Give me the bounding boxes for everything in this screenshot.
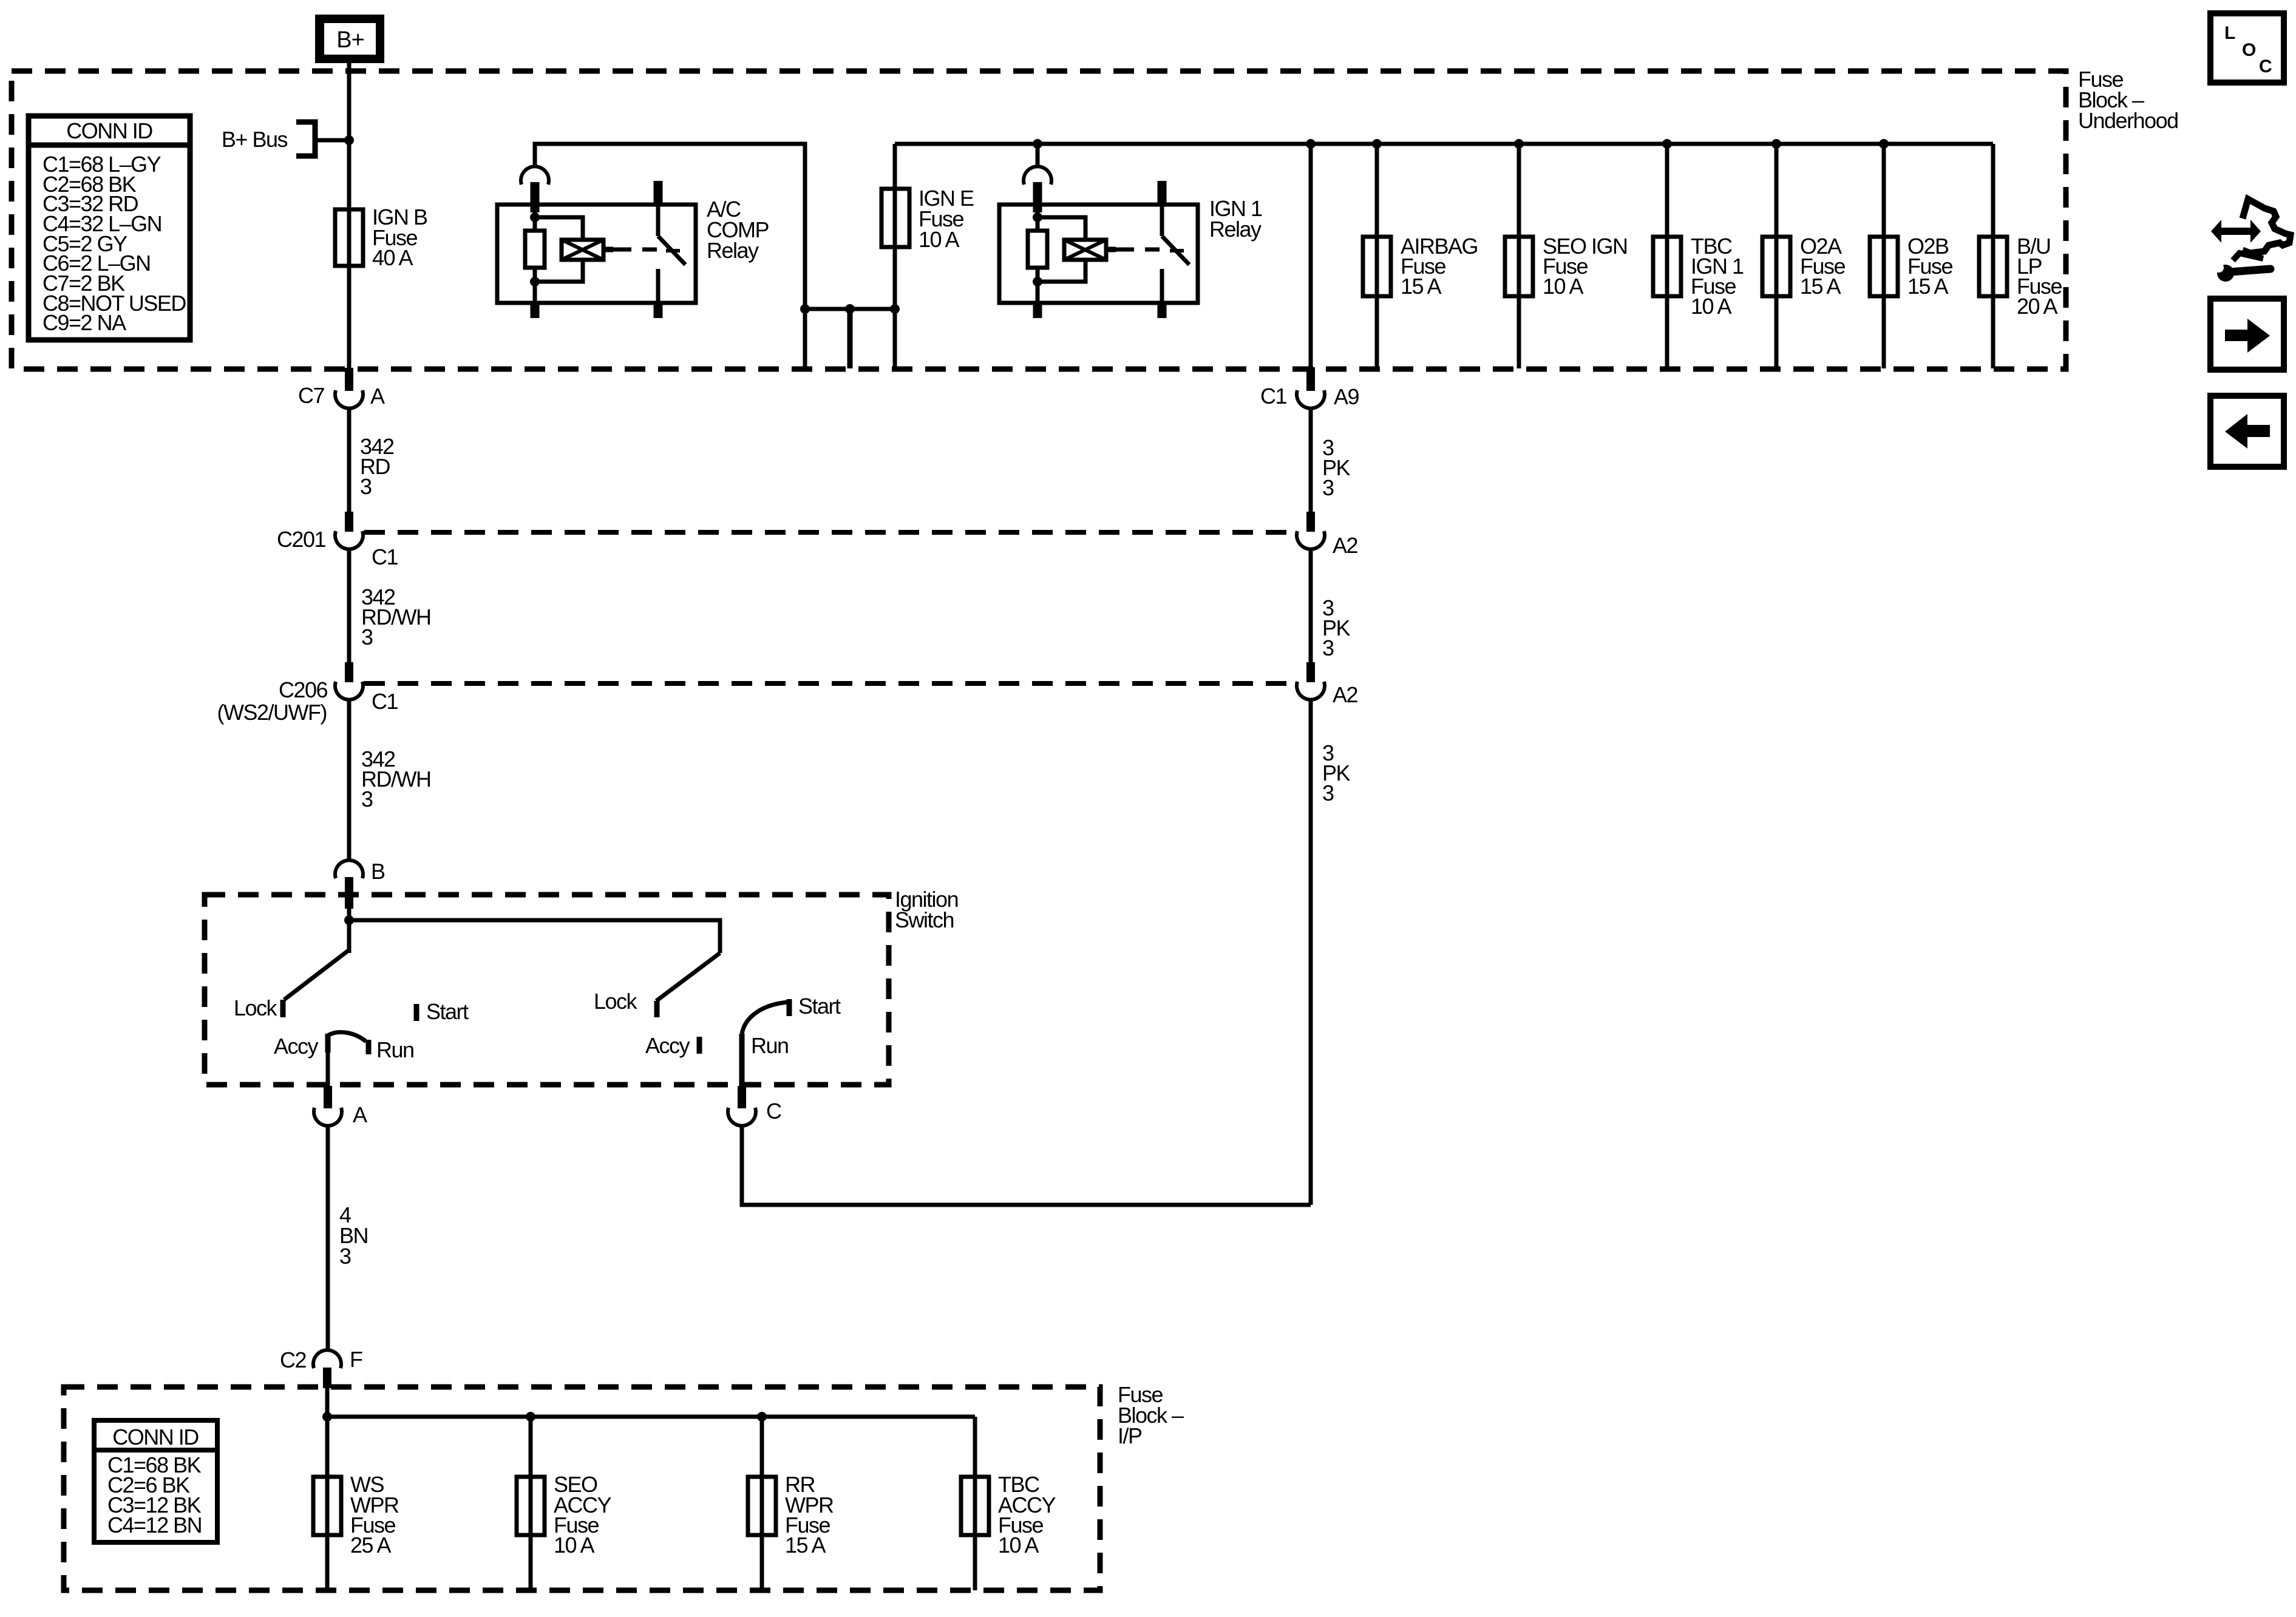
wire top bus segment 1 (A/C relay feed) [535,144,805,309]
svg-text:10 A: 10 A [1691,294,1732,319]
fuse O2B 15 A [1870,139,1953,368]
svg-text:Run: Run [751,1033,789,1058]
svg-text:Start: Start [798,994,841,1019]
svg-text:Accy: Accy [645,1033,690,1058]
connector C206 pin C1 [217,662,398,725]
svg-text:C206: C206 [279,677,328,702]
svg-text:15 A: 15 A [1800,274,1841,299]
switch blade ignition wafer 2 [656,953,720,1001]
svg-text:C: C [2259,56,2272,76]
svg-text:Lock: Lock [234,995,278,1020]
svg-text:A: A [370,384,385,408]
node IGN 1 relay coil bottom junction [1033,277,1042,286]
svg-text:CONN ID: CONN ID [66,118,152,143]
svg-text:O: O [2242,40,2256,60]
relay IGN 1 box outline [999,205,1198,303]
contact Start (wafer 2) [789,994,841,1019]
actuator dashed link IGN 1 relay [1116,249,1184,251]
wire IGN 1 relay feed tap [1036,144,1040,168]
connector C7 pin A [298,368,385,408]
contact Start (wafer 1) [416,999,469,1024]
connector ignition switch pin B [335,859,385,909]
svg-text:C7: C7 [298,383,324,408]
resistor A/C relay coil suppression [525,212,545,303]
svg-text:Underhood: Underhood [2078,108,2178,133]
wire dashed C206 interconnect [364,681,1297,686]
svg-text:15 A: 15 A [785,1533,826,1558]
connector ignition switch pin C [728,1086,781,1126]
svg-text:B+: B+ [336,27,364,53]
wire Run output to pin C [739,1034,745,1086]
label A/C COMP Relay [707,197,769,263]
svg-text:C2: C2 [280,1347,306,1372]
fuse O2A 15 A [1762,139,1846,368]
wire 342 RD/WH 3 (upper) [349,549,430,662]
svg-text:F: F [350,1347,362,1372]
svg-text:3: 3 [1322,781,1334,805]
svg-text:A: A [353,1102,367,1127]
svg-text:10 A: 10 A [554,1533,595,1558]
svg-text:Relay: Relay [707,238,759,263]
contact bridge Run-Start (wafer 2) [742,1002,789,1058]
wire top bus segment 2 (IGN E / fuse row bus) [895,142,1993,146]
icon LOC reference box [2210,13,2284,83]
wire I/P feed bus [322,1412,975,1422]
connector C2 pin F [280,1347,362,1417]
svg-text:C1: C1 [1260,384,1286,408]
node IGN 1 relay coil top junction [1033,212,1042,222]
label Fuse Block - Underhood [2078,67,2178,133]
svg-text:Switch: Switch [895,907,954,932]
connector C201 pin A2 [1297,512,1358,558]
coil winding A/C relay [562,240,613,260]
resistor IGN 1 relay coil suppression [1028,212,1047,303]
contact Accy (wafer 2) [645,1033,699,1058]
pin stubs IGN 1 relay bottom [1038,303,1162,318]
CONN ID table (underhood) [29,116,190,340]
contact Accy (wafer 1) [274,1034,328,1059]
svg-text:C9=2 NA: C9=2 NA [42,310,126,335]
Ignition Switch dashed enclosure [205,895,889,1085]
fuse TBC IGN 1 10 A [1653,139,1744,368]
icon forward arrow box [2210,299,2284,370]
svg-text:3: 3 [360,474,372,499]
connector C201 pin C1 [277,512,398,569]
fuse IGN E 10 A [881,144,974,309]
icon wiring repair (arrows and wrench) [2211,199,2291,282]
coil winding IGN 1 relay [1064,240,1116,260]
fuse RR WPR 15 A [748,1417,834,1590]
svg-text:I/P: I/P [1118,1423,1142,1448]
svg-text:Run: Run [376,1037,414,1062]
svg-text:3: 3 [339,1244,351,1269]
actuator dashed link A/C relay [613,249,680,251]
fuse IGN B 40 A [335,205,427,270]
fuse B/U LP 20 A [1979,144,2062,368]
svg-text:3: 3 [361,787,373,812]
connector arc A/C relay coil feed pin [521,166,549,212]
switch contact IGN 1 relay [1162,181,1189,303]
wire ignition feed internal [344,909,720,953]
svg-text:(WS2/UWF): (WS2/UWF) [217,700,327,725]
contact bridge Accy-Run (wafer 1) [328,1032,414,1062]
fuse WS WPR 25 A [313,1417,399,1590]
svg-text:Accy: Accy [274,1034,319,1059]
connector C206 pin A2 [1297,662,1358,707]
label Ignition Switch [895,887,958,932]
svg-text:10 A: 10 A [998,1533,1039,1558]
wire IGN 1 relay coil parallel branch [1038,217,1085,282]
icon back arrow box [2210,396,2284,467]
svg-text:25 A: 25 A [350,1533,392,1558]
contact Lock (wafer 1) [234,995,283,1020]
wire A/C relay coil parallel branch [535,217,583,282]
label IGN 1 Relay [1209,196,1262,242]
wire 3 PK 3 (A) [1311,407,1351,512]
svg-text:A2: A2 [1333,533,1358,558]
node B+ bus junction [344,135,354,145]
contact Lock (wafer 2) [594,989,657,1017]
svg-text:C: C [766,1099,781,1124]
svg-text:B+ Bus: B+ Bus [222,127,288,152]
Fuse Block - I/P dashed enclosure [64,1387,1100,1590]
svg-text:C1: C1 [372,689,398,714]
node A/C relay coil bottom junction [530,277,540,286]
svg-text:L: L [2224,23,2235,43]
B+ power feed box [315,15,384,63]
fuse TBC ACCY 10 A [961,1417,1056,1590]
connector arc IGN 1 relay coil feed pin [1024,166,1051,212]
svg-text:15 A: 15 A [1907,274,1949,299]
wire Accy output to pin A [326,1053,330,1086]
wire 3 PK 3 (B) [1311,549,1351,662]
B+ Bus tap bracket and label [222,122,349,156]
wire 4 BN 3 [328,1125,368,1352]
wire A9 feed drop [1306,139,1316,367]
svg-text:CONN ID: CONN ID [112,1425,199,1449]
svg-text:A2: A2 [1333,682,1358,707]
wire Run output to IGN E bus [742,1125,1311,1205]
fuse AIRBAG 15 A [1363,139,1478,368]
connector C1 pin A9 [1260,367,1359,409]
svg-text:20 A: 20 A [2017,294,2058,319]
svg-text:3: 3 [361,625,373,649]
svg-text:C201: C201 [277,527,326,552]
svg-text:C1: C1 [372,544,398,569]
wire 3 PK 3 (C) [1311,699,1351,1205]
pin stubs A/C relay bottom [535,303,658,318]
relay A/C COMP box outline [497,205,696,303]
svg-text:B: B [371,859,385,884]
svg-text:10 A: 10 A [919,227,960,252]
svg-text:15 A: 15 A [1401,274,1442,299]
svg-text:40 A: 40 A [372,245,413,270]
svg-text:Start: Start [426,999,469,1024]
wire 342 RD 3 [349,407,394,512]
svg-text:3: 3 [1322,475,1334,500]
connector ignition switch pin A [314,1086,367,1127]
svg-text:Lock: Lock [594,989,638,1014]
svg-text:10 A: 10 A [1543,274,1584,299]
Fuse Block - Underhood dashed enclosure [12,71,2066,369]
svg-text:Relay: Relay [1209,217,1262,242]
switch blade ignition wafer 1 [284,950,349,1000]
svg-text:3: 3 [1322,636,1334,660]
CONN ID table (I/P) [94,1420,217,1542]
label Fuse Block - I/P [1118,1382,1184,1448]
wire 342 RD/WH 3 (lower) [349,699,430,862]
wire dashed C201 interconnect [364,530,1297,535]
fuse SEO IGN 10 A [1505,139,1628,368]
wire B+ feed to fuse block (vertical main feed) [347,63,352,368]
svg-text:A9: A9 [1334,384,1359,409]
wire relay/fuse lower tie bar [800,304,900,368]
node A/C relay coil top junction [530,212,540,222]
svg-text:C4=12 BN: C4=12 BN [107,1513,202,1537]
switch contact A/C relay [658,181,685,303]
node IGN 1 relay bus junction [1033,139,1042,149]
fuse SEO ACCY 10 A [517,1417,612,1590]
